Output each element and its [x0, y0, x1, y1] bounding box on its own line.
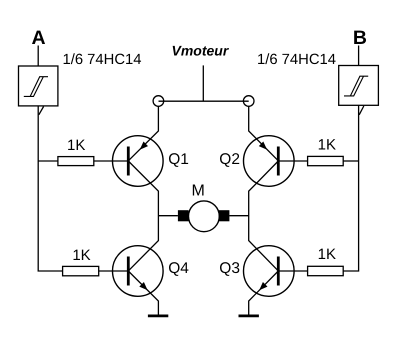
svg-text:Q3: Q3 — [219, 260, 240, 277]
svg-text:1/6 74HC14: 1/6 74HC14 — [257, 52, 336, 68]
wire Vmoteur drop — [202, 65, 204, 101]
wire right rail from U1B output — [343, 105, 358, 271]
wire motor right — [229, 215, 248, 217]
svg-text:M: M — [192, 183, 205, 200]
wire A input — [37, 46, 39, 67]
transistor Q2 emitter arrow (PNP) — [259, 142, 267, 150]
hysteresis symbol U1B — [344, 76, 368, 96]
transistor Q4 circle — [113, 246, 164, 297]
resistor R3 1K (bottom-right) — [308, 266, 344, 275]
wire right link Q2 collector to Q3 collector — [249, 161, 279, 271]
resistor R2 1K (top-right) — [308, 156, 344, 165]
svg-text:1/6 74HC14: 1/6 74HC14 — [63, 52, 142, 68]
transistor Q4 base bar — [127, 257, 130, 286]
transistor Q3 emitter arrow (NPN) — [259, 282, 267, 290]
U1A output slash — [39, 107, 44, 115]
resistor R1 1K (top-left) — [58, 157, 94, 166]
wire R1 to Q1 base — [94, 160, 129, 162]
transistor Q4 emitter arrow (NPN) — [139, 282, 147, 290]
wire left rail from U1A output — [38, 106, 62, 271]
node junction left (open circle) — [153, 96, 164, 107]
transistor Q3 base bar — [277, 257, 280, 286]
ground left — [148, 315, 168, 318]
ground right — [239, 315, 259, 318]
motor M circle — [189, 201, 220, 232]
wire Q1 emitter to left junction — [128, 106, 158, 161]
motor terminal left (black square) — [178, 210, 189, 221]
wire Q4 emitter to ground — [128, 271, 158, 315]
svg-text:Q4: Q4 — [168, 260, 189, 277]
wire R2 to Q2 base — [278, 160, 307, 162]
wire motor left — [158, 215, 178, 217]
U1B output slash — [359, 106, 364, 115]
transistor Q3 circle — [243, 246, 294, 297]
transistor Q1 circle — [113, 136, 164, 187]
wire Q3 emitter to ground — [249, 271, 279, 315]
svg-text:1K: 1K — [318, 136, 336, 153]
hysteresis symbol U1A — [24, 77, 48, 97]
wire right rail branch to R2 — [343, 160, 358, 162]
wire R3 to Q3 base — [278, 270, 307, 272]
svg-text:1K: 1K — [318, 246, 336, 263]
transistor Q1 emitter arrow (PNP) — [140, 142, 148, 150]
svg-text:B: B — [353, 27, 367, 49]
Schmitt inverter U1A box — [19, 66, 58, 106]
node junction right (open circle) — [243, 96, 254, 107]
svg-text:Q1: Q1 — [168, 151, 189, 168]
transistor Q1 base bar — [127, 147, 130, 176]
svg-text:1K: 1K — [72, 247, 90, 264]
wire Q2 emitter to right junction — [249, 106, 279, 161]
svg-text:Vmoteur: Vmoteur — [172, 43, 230, 59]
transistor Q2 base bar — [277, 147, 280, 176]
Schmitt inverter U1B box — [339, 66, 379, 106]
wire top rail — [159, 100, 249, 102]
transistor Q2 circle — [243, 136, 294, 187]
wire left rail branch to R1 — [38, 160, 58, 162]
resistor R4 1K (bottom-left) — [63, 266, 99, 275]
wire B input — [358, 46, 360, 66]
svg-text:1K: 1K — [67, 137, 85, 154]
motor terminal right (black square) — [219, 210, 230, 221]
svg-text:Q2: Q2 — [219, 151, 240, 168]
wire R4 to Q4 base — [99, 270, 129, 272]
wire left link Q1 collector to Q4 collector — [128, 161, 158, 271]
